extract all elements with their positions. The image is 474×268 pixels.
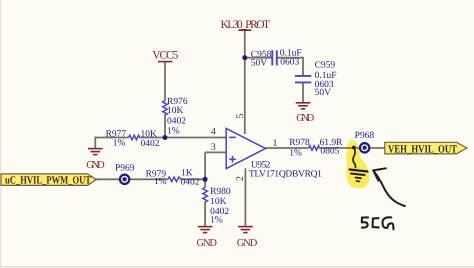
svg-text:VEH_HVIL_OUT: VEH_HVIL_OUT bbox=[388, 143, 458, 155]
svg-text:P968: P968 bbox=[355, 131, 375, 141]
svg-text:0805: 0805 bbox=[320, 146, 339, 156]
svg-text:R978: R978 bbox=[289, 138, 310, 148]
svg-text:1%: 1% bbox=[113, 138, 126, 148]
svg-text:0402: 0402 bbox=[181, 177, 200, 187]
svg-text:1: 1 bbox=[273, 138, 278, 149]
svg-text:P969: P969 bbox=[115, 163, 135, 173]
svg-text:50V: 50V bbox=[315, 88, 332, 98]
svg-text:1%: 1% bbox=[289, 149, 302, 159]
svg-text:3: 3 bbox=[211, 142, 216, 153]
svg-text:GND: GND bbox=[296, 113, 314, 124]
svg-text:50V: 50V bbox=[251, 58, 267, 68]
svg-text:GND: GND bbox=[197, 238, 218, 249]
svg-text:C959: C959 bbox=[315, 60, 336, 70]
svg-text:4: 4 bbox=[211, 127, 216, 138]
svg-text:GND: GND bbox=[86, 160, 105, 171]
svg-text:uC_HVIL_PWM_OUT: uC_HVIL_PWM_OUT bbox=[5, 174, 92, 186]
svg-text:10K: 10K bbox=[167, 106, 184, 116]
svg-text:2: 2 bbox=[235, 176, 246, 181]
svg-text:0603: 0603 bbox=[280, 57, 299, 67]
svg-text:5: 5 bbox=[235, 114, 246, 119]
svg-text:10K: 10K bbox=[210, 197, 227, 207]
svg-text:1%: 1% bbox=[210, 216, 223, 226]
svg-text:0402: 0402 bbox=[141, 139, 160, 149]
svg-text:10K: 10K bbox=[141, 130, 158, 140]
svg-text:VCC5: VCC5 bbox=[152, 50, 178, 62]
svg-text:R980: R980 bbox=[210, 187, 231, 197]
svg-text:KL30_PROT: KL30_PROT bbox=[221, 19, 271, 31]
svg-text:0402: 0402 bbox=[167, 117, 186, 127]
svg-text:TLV171QDBVRQ1: TLV171QDBVRQ1 bbox=[249, 170, 322, 180]
svg-text:1%: 1% bbox=[154, 177, 167, 187]
svg-text:GND: GND bbox=[237, 238, 258, 249]
svg-text:1%: 1% bbox=[167, 127, 180, 137]
